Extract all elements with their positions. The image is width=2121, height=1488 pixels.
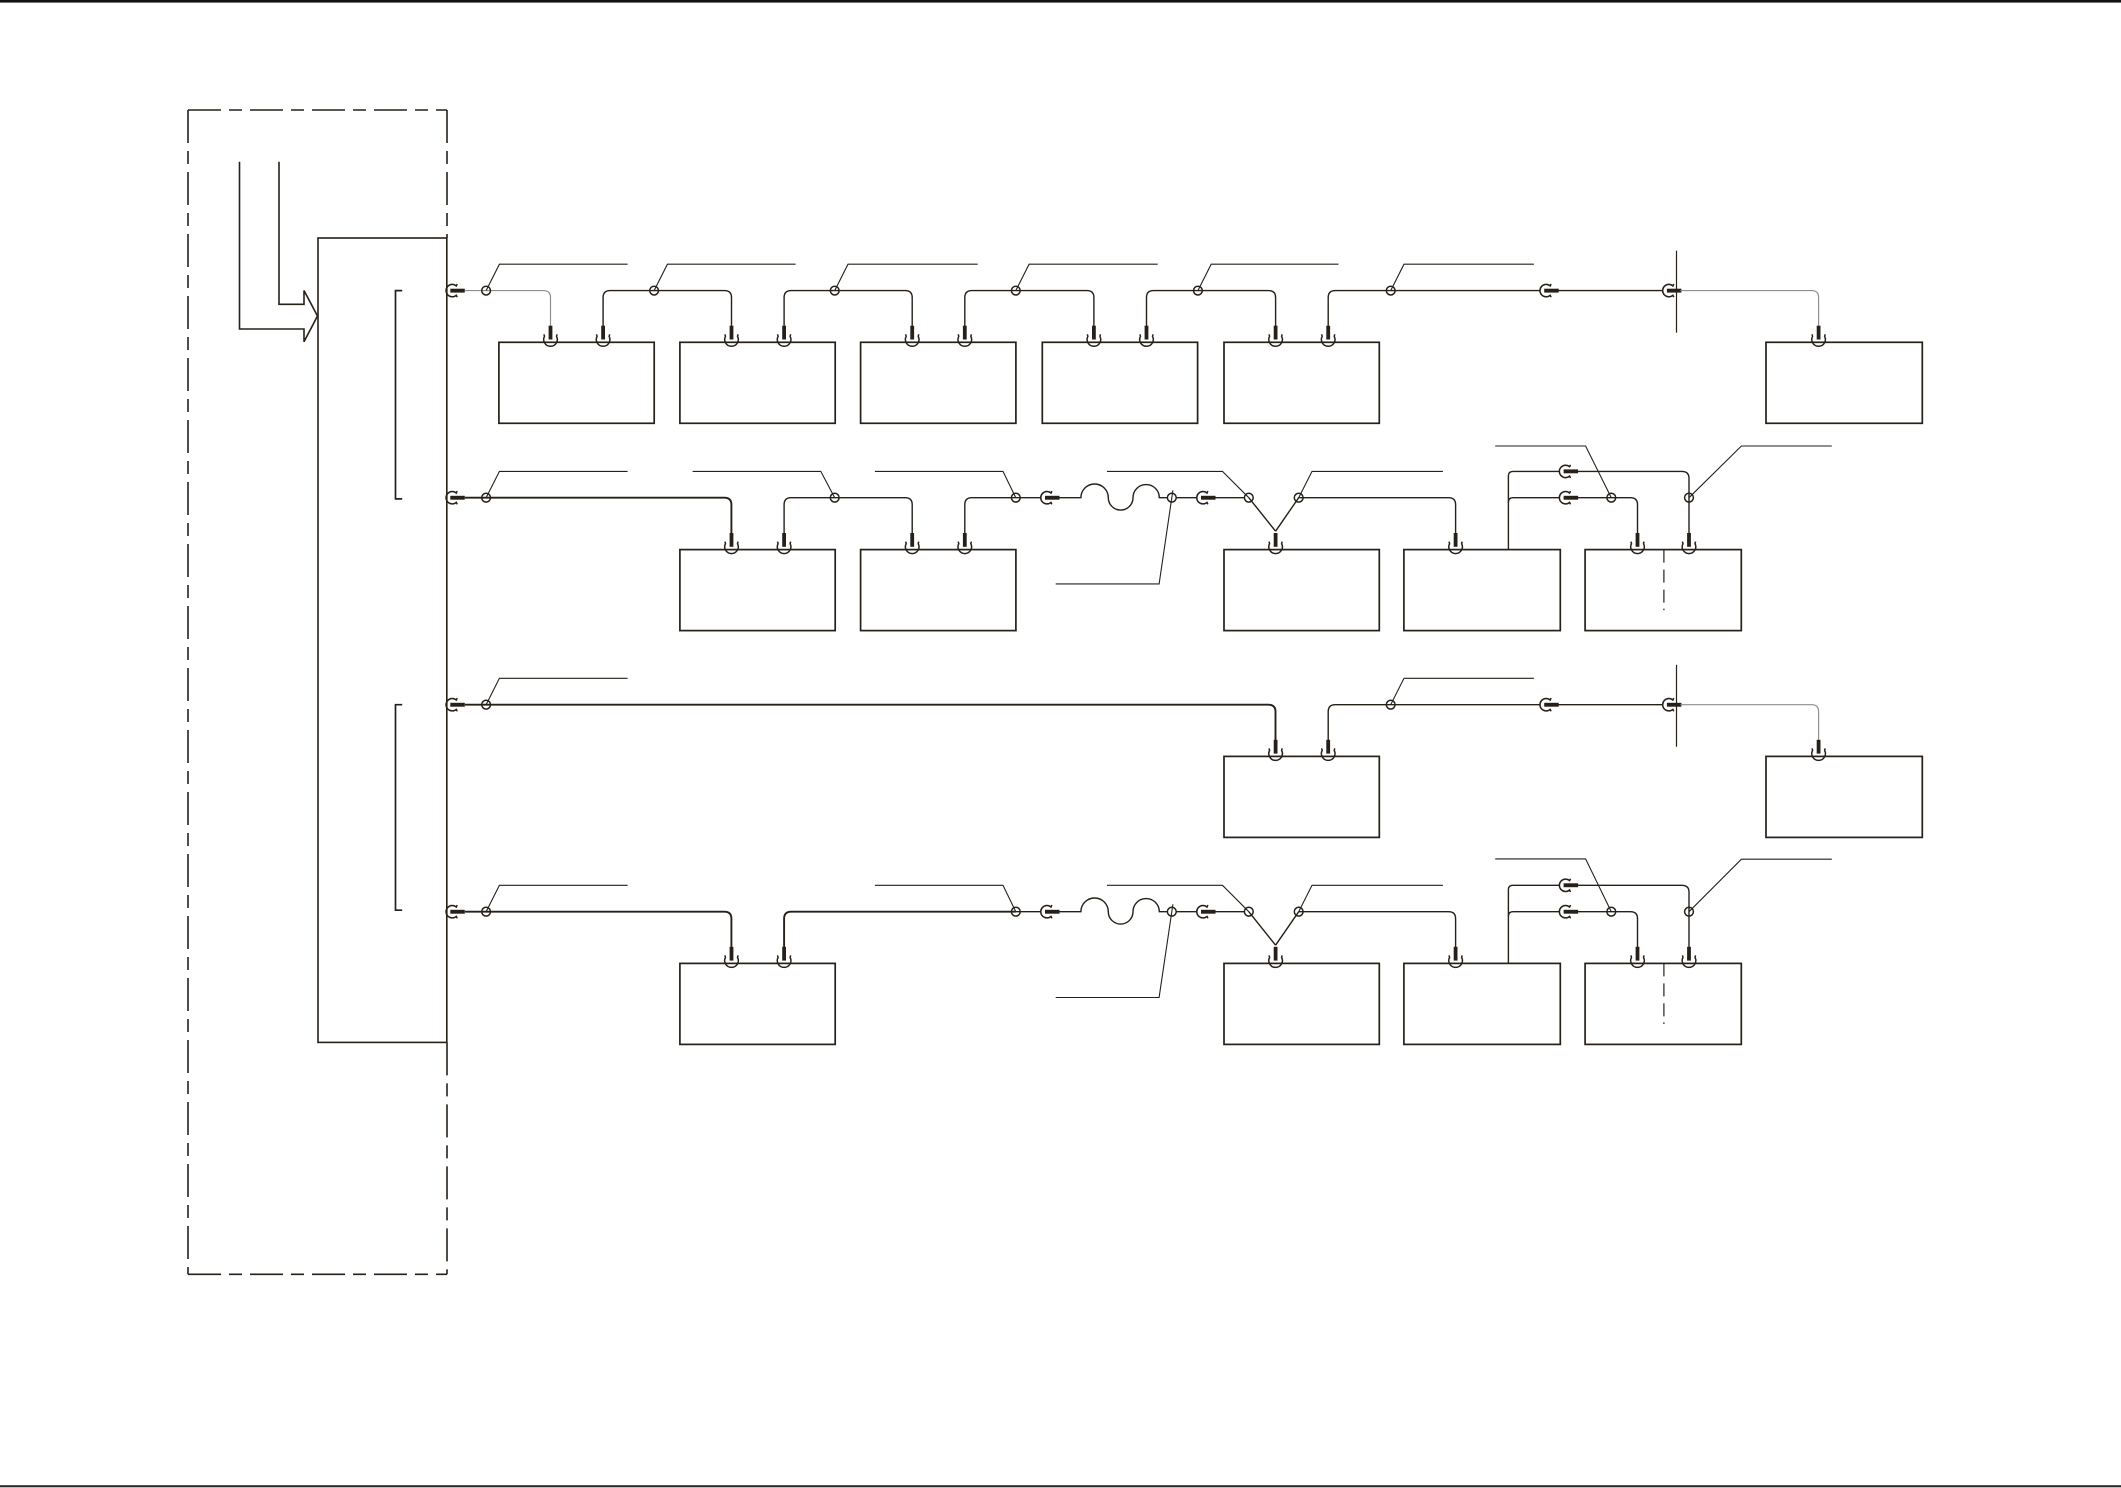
inline connector C4-1 (1041, 905, 1060, 918)
device A1 box (499, 342, 654, 423)
wire: splice S1-6 to connector C1-1 (1391, 290, 1541, 292)
wire: connector C2-4 to splice S2-8 to device B5 pin 1 (1577, 498, 1637, 534)
label leader S4-2 (875, 885, 1016, 911)
device B1 box (680, 550, 835, 631)
vehicle outline dash-dot top edge (188, 109, 447, 111)
device C2 box (1766, 756, 1922, 837)
terminal: device A3 pin 2 (958, 326, 972, 347)
circuit 2 connector at junction block (446, 491, 465, 504)
splice S2-6 (1294, 493, 1303, 502)
label leader S1-1 (486, 264, 627, 290)
wire: connector C2-3 to device B5 pin 2 (1577, 471, 1689, 533)
terminal: device D1 pin 2 (777, 947, 791, 968)
junction block (tall rectangle) (318, 238, 447, 1042)
terminal: device B4 pin (1449, 533, 1463, 554)
bracket group 1 (circuits 1-2) (396, 291, 403, 499)
splice S4-4 (1244, 907, 1253, 916)
terminal: device A5 pin 1 (1269, 326, 1283, 347)
splice S2-3 (1011, 493, 1020, 502)
splice S2-8 (1607, 493, 1616, 502)
label leader S2-5 (1107, 471, 1249, 497)
flow arrow inner line (279, 162, 318, 316)
inline connector C1-1 (1540, 284, 1559, 297)
wire: splice S1-4 to device A4 pin 1 (1016, 291, 1094, 327)
inline connector C4-4 (lower) (1559, 905, 1578, 918)
wire: splice S4-5 down to device D2 terminal (1276, 912, 1299, 946)
bottom border line (0, 1485, 2121, 1487)
splice S3-2 (1386, 700, 1395, 709)
circuit 2 trunk wire to device B1 pin 1 (465, 498, 732, 534)
splice S2-7 on drop wire (1685, 493, 1694, 502)
terminal: device A1 pin 1 (544, 326, 558, 347)
wire: splice S2-3 to connector C2-1 (1016, 497, 1041, 499)
wire: connector C4-4 to splice S4-7 to device D4 pin 1 (1577, 912, 1637, 948)
splice S4-5 (1294, 907, 1303, 916)
vehicle outline dash-dot bottom edge (188, 1273, 447, 1275)
wire: splice S3-2 to connector C3-1 (1391, 704, 1541, 706)
device B5 box (1585, 550, 1741, 631)
label leader S4-1 (486, 885, 627, 911)
label leader S4-5 (1299, 885, 1443, 911)
splice S4-7 (1607, 907, 1616, 916)
circuit 1 connector at junction block (446, 284, 465, 297)
flow arrow outer line (240, 162, 318, 342)
splice S4-6 on drop wire (1685, 907, 1694, 916)
inline connector C4-2 (1197, 905, 1216, 918)
wire: device A5 pin 2 to splice S1-6 (1328, 291, 1391, 327)
terminal: device A6 pin (1812, 326, 1826, 347)
wire: connector C3-1 to connector C3-2 (1558, 704, 1663, 706)
circuit 3 connector at junction block (446, 698, 465, 711)
terminal: device D2 pin (1269, 947, 1283, 968)
label leader S1-4 (1016, 264, 1158, 290)
splice S2-1 (482, 493, 491, 502)
device D3 box (1404, 963, 1560, 1044)
splice S4-2 (1011, 907, 1020, 916)
wire: connector C2-2 to splice S2-5 (1215, 497, 1245, 499)
circuit 4 trunk wire to device D1 pin 1 (465, 912, 732, 948)
bracket group 2 (circuits 3-4) (396, 705, 403, 911)
slack loop (coiled wire) circuit 4 (1059, 898, 1168, 924)
splice S1-4 (1011, 286, 1020, 295)
wire: splice S4-4 down to device D2 terminal (1249, 912, 1276, 946)
wire: device B4 top tap upper branch (1508, 471, 1559, 549)
label leader S3-2 (1391, 678, 1534, 704)
label leader S1-6 (1391, 264, 1534, 290)
wire: splice S1-2 to device A2 pin 1 (654, 291, 731, 327)
terminal: device A4 pin 2 (1140, 326, 1154, 347)
branch-off mark at connector C1-2 (1676, 251, 1678, 333)
device A3 box (861, 342, 1016, 423)
circuit 3 trunk wire to device C1 pin 1 (465, 705, 1276, 741)
terminal: device A4 pin 1 (1087, 326, 1101, 347)
wire: device A3 pin 2 to splice S1-4 (965, 291, 1016, 327)
wire: splice S2-6 down to device B3 terminal (1276, 498, 1299, 532)
terminal: device B2 pin 1 (905, 533, 919, 554)
device A4 box (1042, 342, 1197, 423)
device B2 box (861, 550, 1016, 631)
device B3 box (1224, 550, 1379, 631)
wire: connector C4-3 to device D4 pin 2 (1577, 885, 1689, 947)
device A5 box (1224, 342, 1379, 423)
label leader S4-6 (1689, 859, 1832, 912)
wire: connector C3-2 to device C2 (1680, 705, 1818, 741)
inline connector C2-4 (lower) (1559, 491, 1578, 504)
wire: device D3 top tap lower branch (1508, 912, 1559, 917)
circuit 1 wire: connector to splice S1-1 to terminal (465, 291, 551, 327)
label leader S2-3 (875, 471, 1016, 497)
terminal: device D4 pin 1 (1631, 947, 1645, 968)
wire: splice S4-2 to connector C4-1 (1016, 911, 1041, 913)
vehicle outline dash-dot left edge (187, 110, 189, 1274)
wire: device C1 pin 2 to splice S3-2 (1328, 705, 1391, 741)
wire: splice S2-6 to device B4 pin (1299, 498, 1456, 534)
device D4 box (1585, 963, 1741, 1044)
inline connector C2-2 (1197, 491, 1216, 504)
device C1 box (1224, 756, 1379, 837)
splice S1-5 (1194, 286, 1203, 295)
wire: device D1 pin 2 to splice S4-2 (784, 912, 1016, 948)
wire: device A4 pin 2 to splice S1-5 (1147, 291, 1198, 327)
terminal: device D3 pin (1449, 947, 1463, 968)
terminal: device B1 pin 2 (777, 533, 791, 554)
wire: splice S1-3 to device A3 pin 1 (835, 291, 913, 327)
wire: splice S4-5 to device D3 pin (1299, 912, 1456, 948)
inline connector C2-1 (1041, 491, 1060, 504)
wire: device A2 pin 2 to splice S1-3 (784, 291, 835, 327)
label leader S1-3 (835, 264, 978, 290)
vehicle outline dash-dot right edge lower (446, 1042, 448, 1274)
device A2 box (680, 342, 835, 423)
terminal: device B5 pin 1 (1631, 533, 1645, 554)
inline connector C3-2 (1663, 698, 1682, 711)
wire: splice S1-5 to device A5 pin 1 (1198, 291, 1276, 327)
top border bar (0, 0, 2121, 3)
terminal: device A2 pin 1 (725, 326, 739, 347)
device D2 box (1224, 963, 1379, 1044)
device D1 box (680, 963, 835, 1044)
label leader S1-2 (654, 264, 796, 290)
label leader S2-8 (1495, 446, 1611, 498)
terminal: device A2 pin 2 (777, 326, 791, 347)
splice S3-1 (482, 700, 491, 709)
terminal: device C1 pin 1 (1269, 740, 1283, 761)
splice S1-3 (830, 286, 839, 295)
terminal: device B5 pin 2 (1682, 533, 1696, 554)
wire: device D3 top tap upper branch (1508, 885, 1559, 963)
splice S1-2 (650, 286, 659, 295)
terminal: device B3 pin (1269, 533, 1283, 554)
wire: connector C1-2 to device A6 (1680, 291, 1818, 327)
terminal: device B1 pin 1 (725, 533, 739, 554)
device B4 box (1404, 550, 1560, 631)
wire: device B4 top tap lower branch (1508, 498, 1559, 503)
terminal: device B2 pin 2 (958, 533, 972, 554)
label leader S2-7 (1689, 446, 1832, 498)
inline connector C2-3 (upper) (1559, 465, 1578, 478)
terminal: device A5 pin 2 (1321, 326, 1335, 347)
label leader S2-1 (486, 471, 627, 497)
splice S1-1 (482, 286, 491, 295)
label leader S4-7 (1495, 859, 1611, 912)
circuit 4 connector at junction block (446, 905, 465, 918)
wire: connector C4-2 to splice S4-4 (1215, 911, 1245, 913)
inline connector C1-2 (1663, 284, 1682, 297)
splice S2-2 (830, 493, 839, 502)
label leader S4-3 (1056, 904, 1173, 997)
wire: splice S2-2 to device B2 pin 1 (835, 498, 913, 534)
device B5 internal partition (dash-dot) (1663, 550, 1665, 611)
label leader S4-4 (1107, 885, 1249, 911)
terminal: device A3 pin 1 (905, 326, 919, 347)
splice S4-3 after slack loop (1167, 907, 1176, 916)
slack loop (coiled wire) (1059, 484, 1168, 510)
label leader S2-6 (1299, 471, 1443, 497)
device A6 box (1766, 342, 1922, 423)
terminal: device C1 pin 2 (1321, 740, 1335, 761)
vehicle outline dash-dot right edge upper (446, 110, 448, 238)
label leader S1-5 (1198, 264, 1339, 290)
label leader S2-4 (1056, 490, 1173, 584)
terminal: device D4 pin 2 (1682, 947, 1696, 968)
splice S2-4 after slack loop (1167, 493, 1176, 502)
splice S1-6 (1386, 286, 1395, 295)
wire: splice S4-3 to connector C4-2 (1176, 911, 1197, 913)
terminal: device C2 pin (1812, 740, 1826, 761)
inline connector C4-3 (upper) (1559, 879, 1578, 892)
wire: splice S2-4 to connector C2-2 (1176, 497, 1197, 499)
branch-off mark at connector C3-2 (1676, 665, 1678, 747)
wire: connector C1-1 to connector C1-2 (1558, 290, 1663, 292)
label leader S2-2 (693, 471, 835, 497)
inline connector C3-1 (1540, 698, 1559, 711)
device D4 internal partition (dash-dot) (1663, 963, 1665, 1024)
wire: device B2 pin 2 to splice S2-3 (965, 498, 1016, 534)
wire: splice S2-5 down to device B3 terminal (1249, 498, 1276, 532)
terminal: device D1 pin 1 (725, 947, 739, 968)
splice S2-5 (1244, 493, 1253, 502)
label leader S3-1 (486, 678, 627, 704)
wire: device B1 pin 2 to splice S2-2 (784, 498, 835, 534)
wire: device A1 pin 2 to splice S1-2 (603, 291, 654, 327)
splice S4-1 (482, 907, 491, 916)
terminal: device A1 pin 2 (596, 326, 610, 347)
